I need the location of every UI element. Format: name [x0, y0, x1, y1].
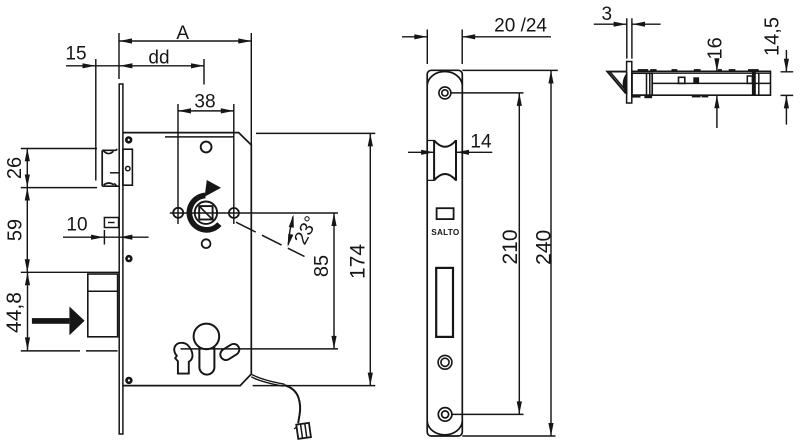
dim 85 line	[333, 213, 335, 349]
thick bar	[752, 72, 756, 95]
cylinder axis line	[181, 348, 339, 350]
throw arrow (solid)	[32, 307, 85, 336]
deadbolt window	[436, 268, 453, 337]
euro cylinder profile	[194, 324, 220, 350]
svg-text:59: 59	[5, 219, 27, 241]
bottom tabs	[632, 95, 708, 98]
faceplate bar	[627, 62, 632, 104]
dim 3 line	[594, 23, 661, 25]
bottom screw	[438, 408, 452, 422]
housing hole	[126, 166, 130, 170]
ext lines 3	[627, 18, 632, 58]
faceplate (edge view)	[119, 84, 123, 434]
ref line 210 bottom	[452, 413, 524, 415]
svg-text:10: 10	[66, 215, 87, 236]
cable	[252, 375, 285, 385]
inner top plate line	[165, 136, 234, 138]
dim 20/24 line	[402, 36, 551, 38]
ext tick 10	[103, 230, 105, 245]
middle screw	[438, 355, 452, 369]
ref line 174 top	[256, 132, 375, 134]
ticks 14,5	[781, 72, 794, 96]
ext line A left	[118, 33, 120, 79]
svg-text:14: 14	[470, 132, 492, 153]
auxiliary trigger	[104, 218, 118, 228]
svg-text:38: 38	[194, 92, 215, 113]
cam slot (right of cylinder, tilted capsule)	[218, 342, 241, 362]
faceplate bottom dome	[427, 421, 462, 435]
case body (section)	[632, 71, 771, 95]
hole above spindle	[201, 142, 212, 153]
svg-text:240: 240	[533, 230, 556, 265]
svg-text:210: 210	[499, 229, 522, 264]
ref line 240 top	[462, 69, 558, 71]
ref line 210 top	[451, 92, 524, 94]
extension line 38 right	[233, 104, 235, 224]
top screw	[439, 87, 451, 99]
aux bolt window	[437, 208, 454, 219]
fixing hole right (crosshair)	[229, 208, 239, 218]
23 deg dashed line	[236, 222, 305, 256]
roller bolt	[434, 140, 456, 181]
dim 38 line	[178, 110, 234, 112]
dim 240 line	[550, 71, 552, 437]
svg-text:44,8: 44,8	[3, 292, 26, 333]
rivet bottom	[125, 377, 132, 384]
ext lines 20/24	[427, 30, 462, 65]
dim 210 line	[518, 93, 520, 415]
23 deg angle arrow	[288, 217, 293, 245]
dim dd / 15 line	[66, 65, 204, 67]
latch guide housing	[123, 149, 132, 185]
svg-text:15: 15	[65, 44, 86, 65]
spindle follower (square)	[195, 202, 217, 224]
svg-text:20 /24: 20 /24	[494, 16, 547, 37]
small square open	[679, 77, 685, 83]
cable connector	[294, 423, 311, 439]
deadbolt (front view)	[88, 274, 118, 337]
faceplate outline	[427, 70, 462, 436]
dim 10 line	[63, 236, 149, 238]
faceplate top dome	[427, 71, 462, 85]
small square filled	[693, 77, 699, 83]
svg-text:174: 174	[347, 244, 370, 279]
ext line 15	[95, 59, 97, 181]
dim 26 line	[26, 148, 28, 187]
latch box (section)	[632, 73, 652, 95]
svg-text:26: 26	[4, 157, 26, 179]
ref line y187	[21, 187, 97, 189]
fixing hole left (crosshair)	[173, 208, 183, 218]
extension line 38 left	[177, 104, 179, 224]
rotation arrow (thick arc)	[189, 196, 219, 230]
svg-text:dd: dd	[148, 48, 169, 69]
ref line 174 bottom	[253, 385, 376, 387]
ref line y272	[21, 271, 119, 273]
hole below spindle	[202, 239, 211, 248]
svg-text:16: 16	[705, 37, 727, 59]
dim A line	[119, 40, 251, 42]
ref line y148	[21, 148, 97, 150]
svg-text:A: A	[176, 23, 189, 44]
rivet middle	[125, 255, 132, 262]
small rect left of bar	[747, 76, 752, 83]
svg-text:SALTO: SALTO	[431, 228, 460, 237]
svg-text:14,5: 14,5	[762, 17, 784, 56]
latch nose	[607, 72, 626, 93]
dim 44,8 line	[27, 272, 29, 350]
dim 14 line	[408, 151, 492, 153]
ref line y351	[21, 350, 118, 352]
axis line through holes	[170, 212, 338, 214]
rivet top	[125, 136, 132, 143]
ref line 240 bottom	[462, 435, 555, 437]
latch bolt (front view)	[102, 149, 119, 186]
ext line dd right	[203, 59, 205, 85]
dim 59 line	[26, 188, 28, 273]
top tabs	[638, 69, 759, 71]
dim 14,5	[785, 50, 787, 72]
svg-text:3: 3	[602, 4, 613, 25]
dim 174 line	[369, 133, 371, 385]
turn cam shape (left of cylinder)	[174, 343, 192, 374]
dim 16	[716, 63, 718, 71]
ext line A right	[250, 33, 252, 145]
lock case outline	[123, 133, 251, 386]
svg-text:85: 85	[311, 255, 333, 277]
